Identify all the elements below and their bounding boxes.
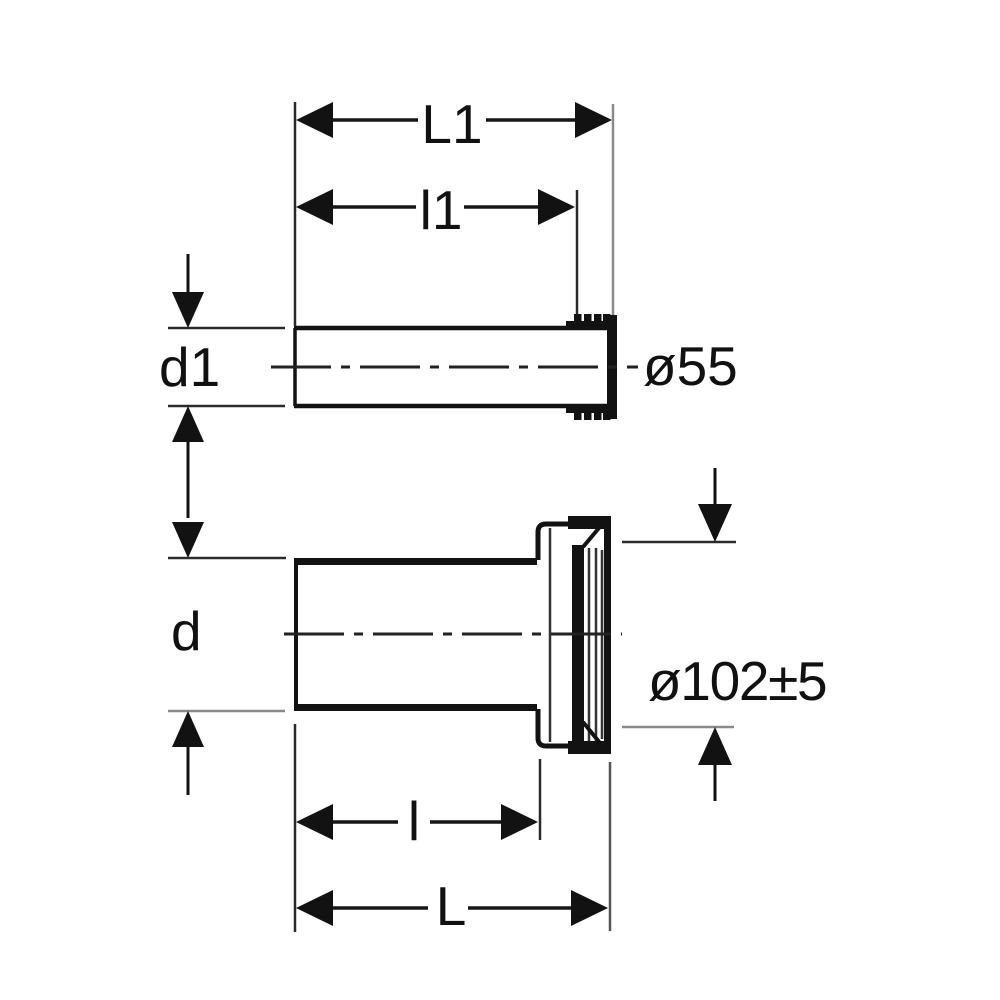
dimension l line <box>330 820 504 824</box>
d1 bottom witness line <box>168 405 285 408</box>
extension line right of l1 (x=577) <box>576 190 579 316</box>
dimension L left arrowhead <box>296 890 333 926</box>
bell top lip bar <box>568 516 611 529</box>
bell socket bottom diagonal <box>583 722 604 748</box>
dimension L1 line <box>330 118 578 122</box>
top pipe body <box>294 328 614 406</box>
bottom pipe body <box>294 559 537 710</box>
ø102 top arrow (down) <box>714 468 717 508</box>
dimension l1 left arrowhead <box>296 189 333 225</box>
d1 top witness line <box>168 327 285 330</box>
dimension l1 line <box>330 205 541 209</box>
svg-text:d: d <box>171 600 202 662</box>
extension line right of L (x=610) <box>609 762 612 931</box>
dimension L line <box>330 906 574 910</box>
dimension L right arrowhead <box>571 890 608 926</box>
extension line left (top, x=295) <box>294 102 297 326</box>
ø102 bottom witness line <box>622 726 734 729</box>
dimension l1 right arrowhead <box>538 189 575 225</box>
bell right edge <box>604 516 611 754</box>
svg-text:l1: l1 <box>420 179 463 241</box>
dimension L1 right arrowhead <box>575 102 612 138</box>
svg-text:ø55: ø55 <box>643 335 738 397</box>
dimension L1 left arrowhead <box>296 102 333 138</box>
bottom pipe centerline <box>284 633 622 636</box>
svg-text:l: l <box>408 790 420 852</box>
d1 bottom arrow (up) with shared shaft <box>172 406 204 442</box>
extension line left bottom (x=295) <box>294 724 297 932</box>
top pipe thread collar <box>566 321 612 330</box>
d bottom arrow (up) <box>172 711 204 747</box>
bell bottom lip bar <box>568 741 611 754</box>
top pipe centerline <box>271 366 638 369</box>
svg-text:L1: L1 <box>421 93 482 155</box>
bell socket rings <box>589 548 602 741</box>
bottom pipe bell outline <box>538 524 571 746</box>
svg-text:d1: d1 <box>159 336 220 398</box>
ø102 top witness line <box>622 541 736 544</box>
svg-text:ø102±5: ø102±5 <box>648 650 826 712</box>
extension line right of L1 (x=613, gray) <box>612 104 615 315</box>
top pipe thread teeth (top row) <box>574 314 611 328</box>
dimension l left arrowhead <box>296 804 333 840</box>
top pipe thread teeth (bottom row) <box>574 406 611 420</box>
extension line right of l (x=540) <box>539 759 542 840</box>
d1 top arrow (down) <box>187 254 190 294</box>
ø102 bottom arrow (up) <box>698 727 732 765</box>
bell inner left line <box>549 528 552 742</box>
d bottom witness line <box>168 710 285 713</box>
bell socket top diagonal <box>583 522 604 547</box>
d top witness line <box>168 557 286 560</box>
bell socket inner band <box>572 545 584 744</box>
svg-text:L: L <box>436 875 467 937</box>
top pipe thread end bar <box>607 315 617 419</box>
d top arrow (down) <box>172 522 204 558</box>
dimension l right arrowhead <box>501 804 538 840</box>
